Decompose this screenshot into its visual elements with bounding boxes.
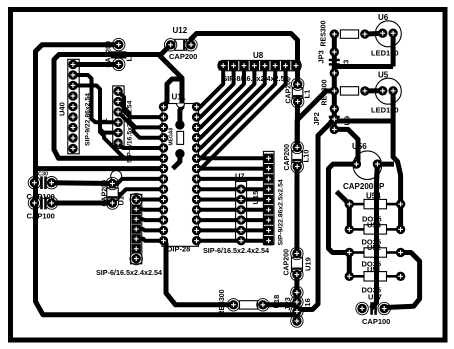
svg-text:CAP100: CAP100 bbox=[27, 192, 55, 201]
svg-text:CAP200RP: CAP200RP bbox=[343, 182, 385, 191]
svg-text:U40: U40 bbox=[58, 102, 67, 116]
svg-text:U17: U17 bbox=[117, 192, 126, 206]
svg-text:SIP-6/16.5x2.4x2.54: SIP-6/16.5x2.4x2.54 bbox=[96, 268, 162, 277]
svg-text:U57: U57 bbox=[368, 293, 382, 302]
svg-text:RES300: RES300 bbox=[322, 79, 329, 105]
svg-text:CAP200: CAP200 bbox=[102, 180, 109, 207]
svg-text:U53: U53 bbox=[367, 221, 381, 230]
svg-text:L1: L1 bbox=[303, 90, 312, 99]
svg-text:U52: U52 bbox=[367, 243, 381, 252]
svg-text:U5: U5 bbox=[378, 71, 389, 80]
svg-text:RES300: RES300 bbox=[219, 289, 226, 315]
svg-text:SIP-9/22.86x2.54: SIP-9/22.86x2.54 bbox=[85, 93, 92, 146]
svg-text:JP2: JP2 bbox=[312, 112, 321, 125]
svg-text:JP3: JP3 bbox=[283, 297, 292, 310]
svg-text:U54: U54 bbox=[366, 192, 381, 201]
svg-text:CAP200: CAP200 bbox=[106, 41, 113, 68]
svg-text:CAP200: CAP200 bbox=[284, 249, 291, 276]
svg-text:DIP-28: DIP-28 bbox=[167, 245, 190, 254]
svg-text:L10: L10 bbox=[302, 150, 311, 163]
svg-text:JP3: JP3 bbox=[317, 50, 326, 63]
svg-text:MEGA8: MEGA8 bbox=[169, 128, 175, 146]
svg-text:CAP200: CAP200 bbox=[284, 144, 291, 171]
svg-text:RES300: RES300 bbox=[321, 20, 328, 46]
svg-text:U16: U16 bbox=[303, 298, 312, 312]
svg-text:U18: U18 bbox=[272, 295, 281, 309]
svg-text:CAP200: CAP200 bbox=[286, 77, 293, 104]
svg-text:CAP100: CAP100 bbox=[27, 212, 55, 221]
svg-text:U7: U7 bbox=[235, 172, 245, 181]
svg-text:L2: L2 bbox=[125, 53, 134, 62]
svg-text:U12: U12 bbox=[173, 26, 188, 35]
svg-text:SIP-8/16.5x2.4x2.54: SIP-8/16.5x2.4x2.54 bbox=[223, 74, 289, 83]
svg-text:U51: U51 bbox=[367, 265, 381, 274]
svg-text:1: 1 bbox=[100, 118, 109, 122]
svg-text:U11: U11 bbox=[172, 93, 187, 102]
svg-text:CAP200: CAP200 bbox=[169, 52, 197, 61]
svg-text:U8: U8 bbox=[253, 51, 264, 60]
svg-text:SIP-6/16.5x2.4x2.54: SIP-6/16.5x2.4x2.54 bbox=[203, 246, 269, 255]
svg-text:CAP100: CAP100 bbox=[362, 317, 390, 326]
svg-text:LED100: LED100 bbox=[371, 106, 399, 115]
svg-text:LED100: LED100 bbox=[371, 49, 399, 58]
svg-text:L3: L3 bbox=[342, 60, 351, 69]
svg-text:SIP-9/22.86x2.5x2.54: SIP-9/22.86x2.5x2.54 bbox=[278, 179, 285, 245]
svg-text:U15: U15 bbox=[251, 191, 260, 205]
svg-text:U9: U9 bbox=[343, 116, 352, 126]
svg-text:U6: U6 bbox=[378, 13, 389, 22]
svg-text:U19: U19 bbox=[304, 257, 313, 271]
svg-text:C30: C30 bbox=[38, 172, 48, 178]
svg-text:U56: U56 bbox=[352, 142, 367, 151]
svg-text:SIP-6/16.5x2.4x2.54: SIP-6/16.5x2.4x2.54 bbox=[127, 100, 134, 163]
